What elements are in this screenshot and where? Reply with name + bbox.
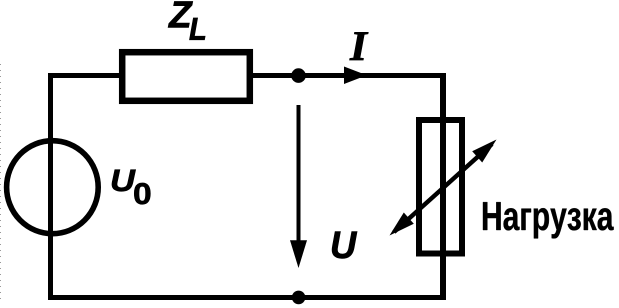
- impedance ZL: [122, 52, 250, 101]
- current arrow I: [344, 67, 367, 85]
- wire top: [48, 73, 446, 78]
- load (rectangle): [419, 120, 462, 254]
- label ZL: [168, 1, 205, 39]
- voltage arrow U: [290, 105, 307, 268]
- voltage source U0: [7, 141, 99, 234]
- variable-load arrow: [390, 140, 497, 236]
- wire left: [48, 73, 53, 300]
- label U: [332, 232, 357, 259]
- label Нагрузка: [483, 202, 614, 238]
- label I: [350, 32, 369, 60]
- wire right: [440, 73, 446, 300]
- wire bottom: [48, 295, 446, 300]
- label U0: [112, 170, 150, 205]
- node top junction: [291, 68, 306, 83]
- wire through load: [440, 117, 446, 257]
- node bottom junction: [292, 291, 306, 305]
